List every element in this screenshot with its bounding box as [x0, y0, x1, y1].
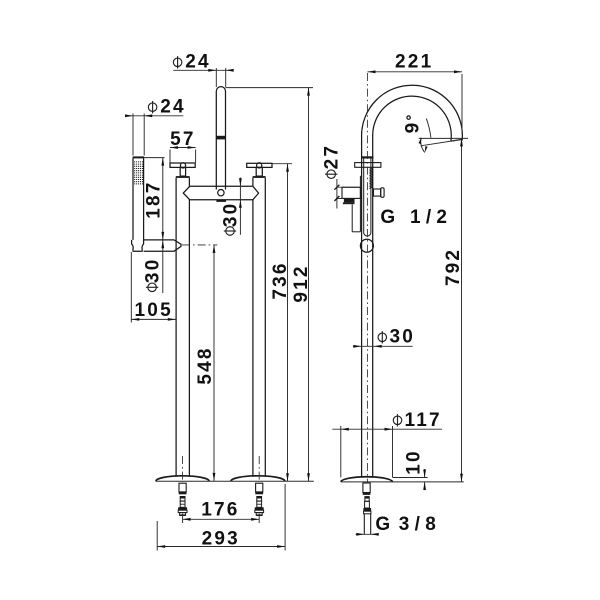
svg-text:221: 221	[395, 52, 433, 73]
svg-text:30: 30	[220, 202, 241, 228]
svg-text:792: 792	[443, 248, 464, 286]
svg-text:105: 105	[135, 300, 173, 321]
svg-text:117: 117	[405, 410, 442, 431]
svg-text:176: 176	[201, 499, 239, 520]
svg-text:24: 24	[185, 52, 211, 73]
svg-text:736: 736	[270, 261, 291, 299]
svg-text:30: 30	[390, 326, 416, 347]
svg-text:G: G	[375, 514, 390, 535]
svg-text:187: 187	[144, 180, 165, 218]
svg-text:G: G	[380, 207, 395, 228]
svg-text:548: 548	[195, 346, 216, 384]
svg-text:24: 24	[160, 96, 186, 117]
svg-text:27: 27	[322, 144, 343, 170]
svg-text:9: 9	[403, 121, 424, 134]
svg-text:57: 57	[170, 129, 196, 150]
svg-text:1 / 2: 1 / 2	[410, 207, 447, 228]
svg-text:293: 293	[202, 529, 240, 550]
svg-text:912: 912	[291, 264, 312, 302]
svg-text:30: 30	[142, 258, 163, 284]
svg-text:10: 10	[404, 449, 425, 475]
svg-text:3 / 8: 3 / 8	[399, 514, 436, 535]
